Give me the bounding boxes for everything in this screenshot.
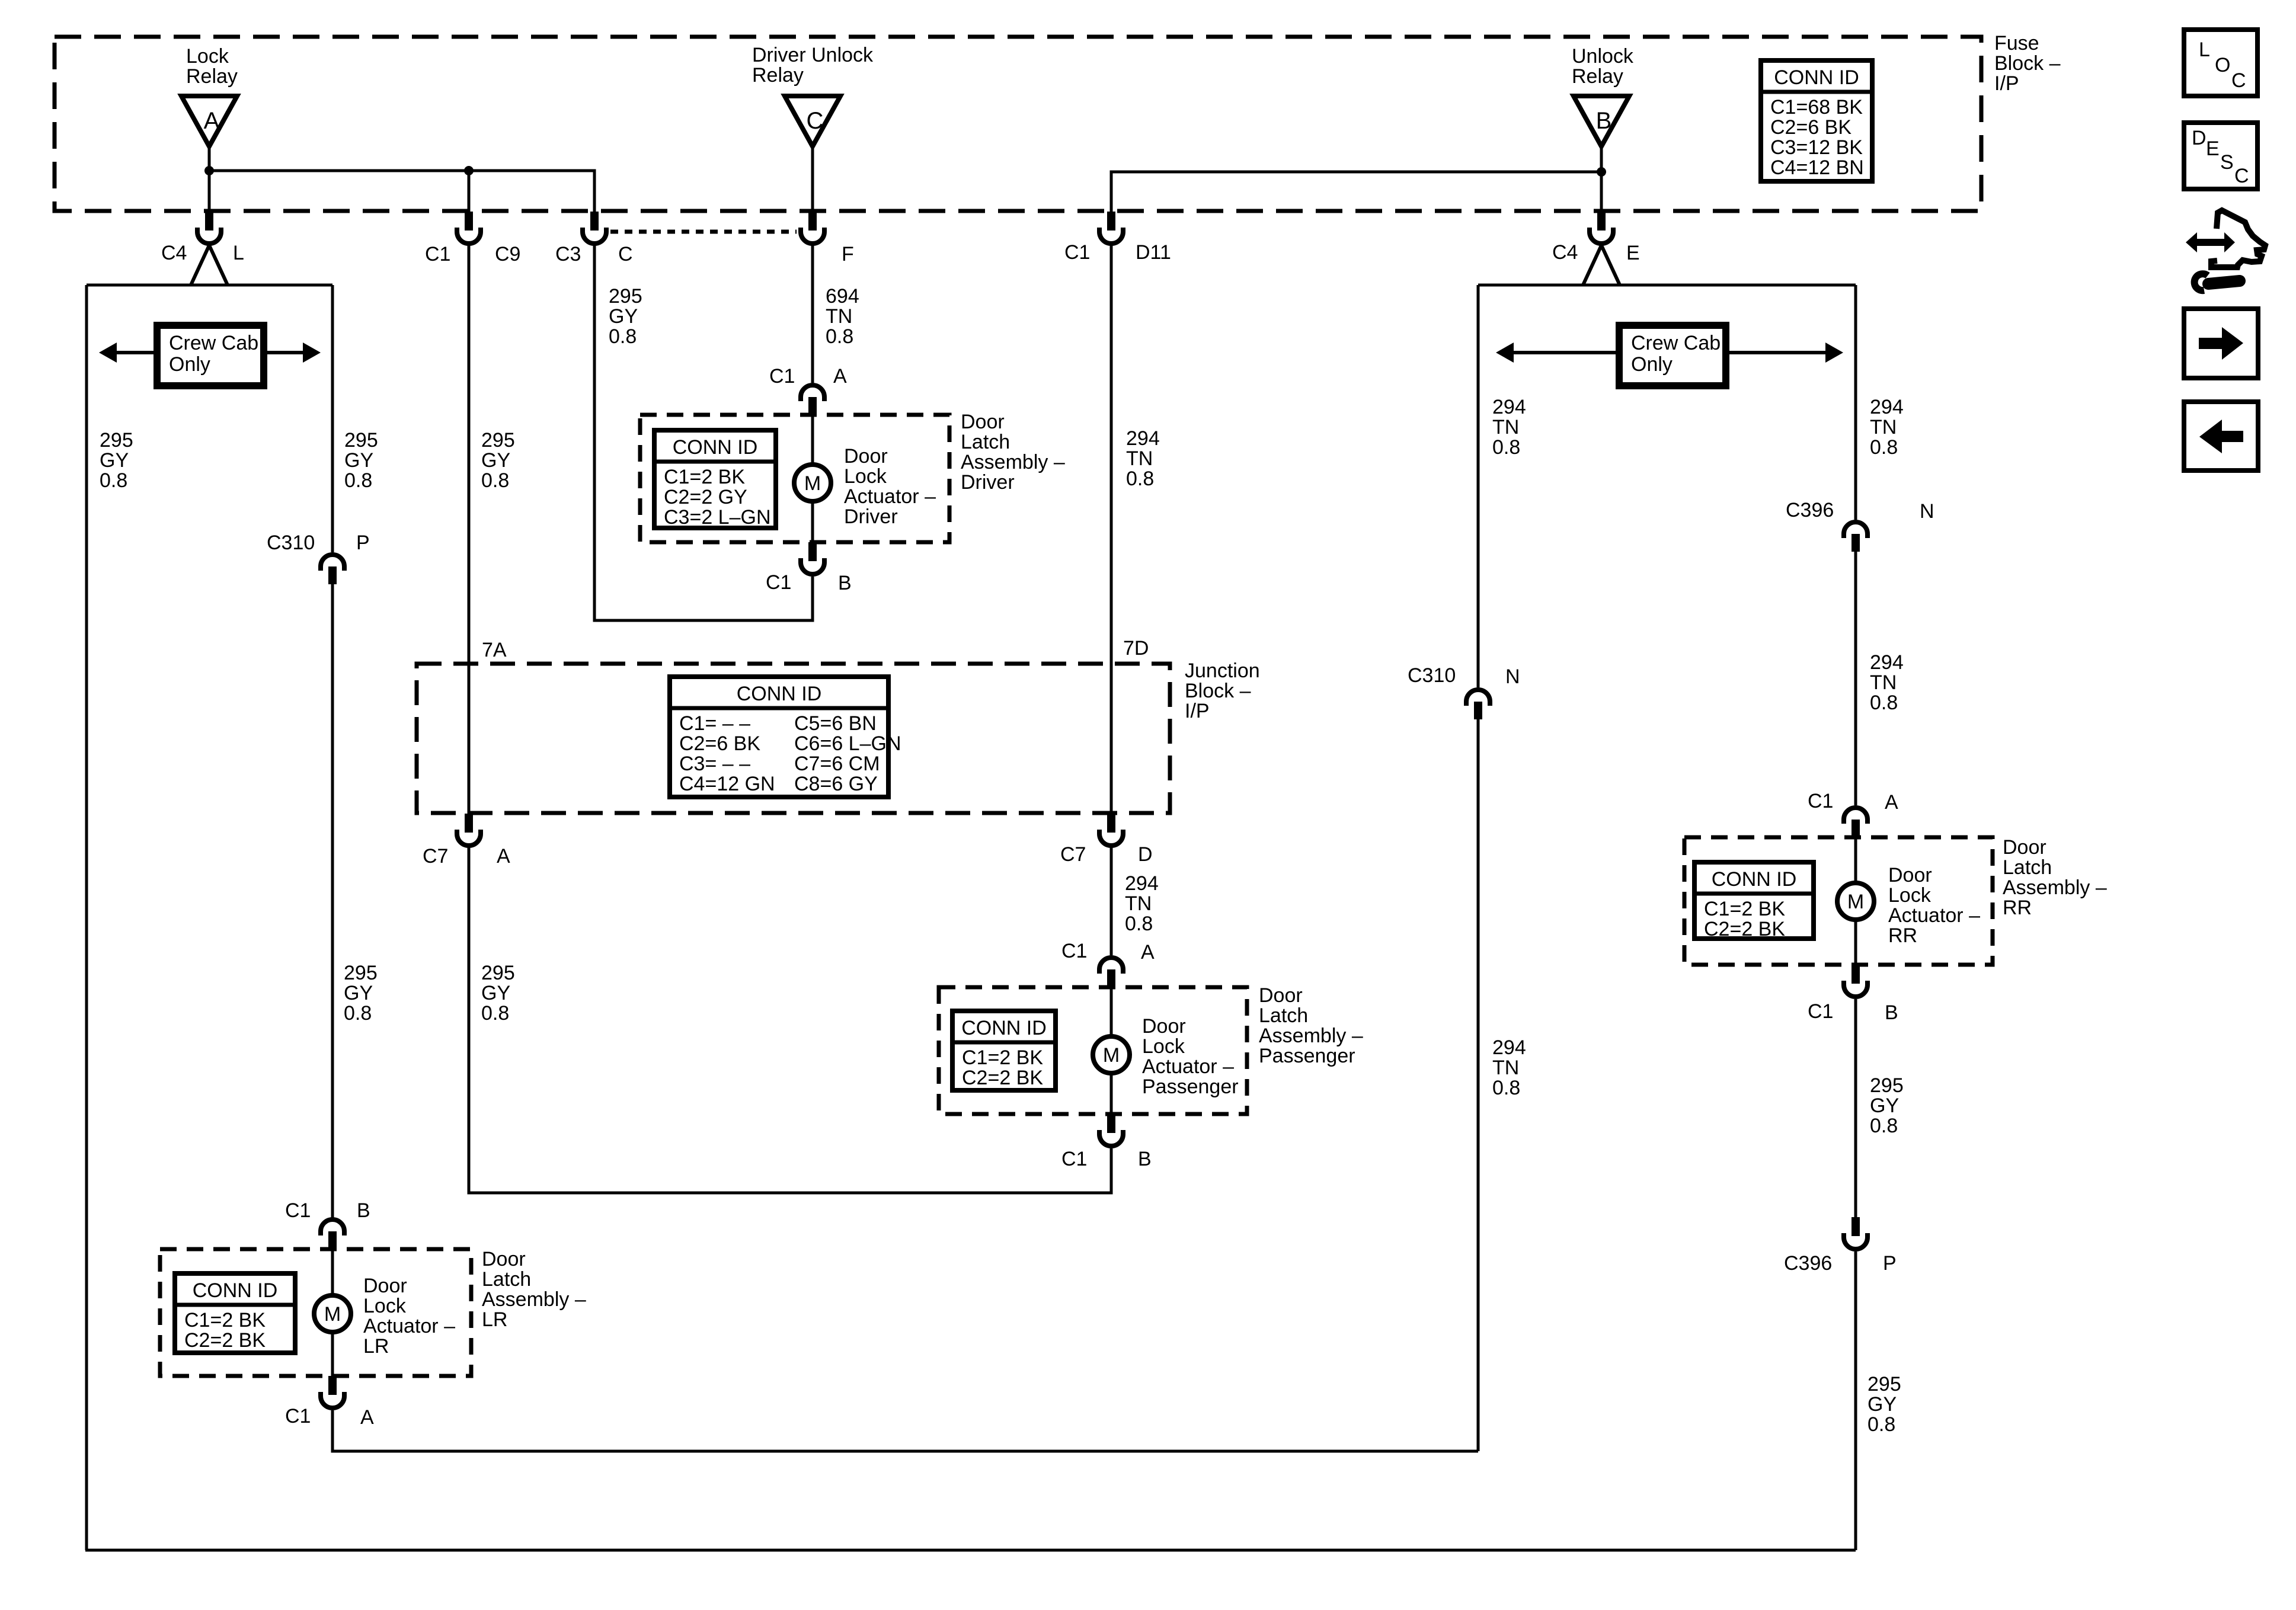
svg-text:A: A [833,365,847,388]
svg-text:P: P [1883,1252,1897,1275]
svg-text:0.8: 0.8 [1126,468,1154,490]
svg-text:Block –: Block – [1994,52,2061,75]
svg-text:Relay: Relay [1572,65,1623,88]
svg-text:7D: 7D [1123,637,1149,660]
wire label 295 GY 0.8 (lower C310 column) [344,962,378,1025]
svg-text:0.8: 0.8 [826,325,853,348]
svg-text:0.8: 0.8 [100,469,127,492]
wire: F down to driver actuator A [811,245,814,383]
connector C1 pin A (passenger) [1099,958,1123,988]
svg-text:Door: Door [1142,1015,1186,1038]
svg-text:C7: C7 [1060,843,1086,866]
label C396 / N [1786,499,1934,523]
junction dot at unlock relay [1597,167,1606,177]
svg-text:M: M [1103,1044,1120,1067]
svg-text:295: 295 [1870,1074,1904,1097]
svg-text:TN: TN [1870,671,1897,694]
svg-text:C1: C1 [1061,940,1087,962]
svg-text:Unlock: Unlock [1572,45,1634,68]
svg-text:B: B [1885,1001,1898,1024]
svg-text:GY: GY [609,305,638,328]
connector C1 pin A (RR) [1844,808,1868,838]
svg-text:295: 295 [100,429,133,452]
svg-text:0.8: 0.8 [1870,1115,1898,1137]
wire: driver unlock relay C down to pin F [811,145,814,212]
svg-text:C1=2 BK: C1=2 BK [962,1046,1043,1069]
svg-text:C1: C1 [1061,1148,1087,1170]
svg-text:294: 294 [1126,427,1160,450]
wire label 295 GY 0.8 (C column) [609,285,642,348]
svg-text:M: M [804,472,821,495]
label C310 / P [267,532,370,554]
junction dot above C1/C9 [464,166,474,175]
door lock actuator motor (LR) [314,1295,351,1332]
svg-text:N: N [1920,500,1934,523]
LR latch CONN ID table [175,1273,295,1353]
svg-text:295: 295 [609,285,642,308]
svg-text:M: M [324,1303,341,1326]
svg-text:C7: C7 [423,845,448,868]
svg-text:GY: GY [481,449,510,472]
svg-text:C1: C1 [285,1405,311,1427]
svg-text:C3=2 L–GN: C3=2 L–GN [664,506,771,529]
wire: crew-cab unlock loop top [1478,284,1856,287]
svg-text:Driver: Driver [844,505,898,528]
label: Door Latch Assembly - Passenger [1259,984,1363,1067]
fuse block I/P dashed enclosure [55,37,1981,211]
svg-text:CONN ID: CONN ID [193,1279,278,1302]
wire label 294 TN 0.8 (unlock right) [1870,396,1904,459]
icon: adjust/repair (double arrow, outline, wrench) [2186,210,2265,290]
svg-text:Latch: Latch [961,431,1010,453]
RR latch CONN ID table [1694,862,1814,940]
svg-text:TN: TN [826,305,852,328]
connector C3 pin C [583,212,606,244]
wire: C pin down, corner to driver actuator B [594,245,813,620]
svg-text:0.8: 0.8 [609,325,637,348]
svg-text:294: 294 [1870,396,1904,418]
label C7 / A [423,845,510,868]
svg-text:Actuator –: Actuator – [1142,1055,1234,1078]
crew cab only box (lock side) [99,325,321,386]
svg-text:C3: C3 [555,243,581,265]
svg-text:GY: GY [1870,1094,1899,1117]
label C7 / D [1060,843,1153,866]
svg-text:C1=2 BK: C1=2 BK [664,466,745,488]
svg-text:Driver Unlock: Driver Unlock [752,44,874,66]
svg-text:A: A [204,108,220,134]
wire label 295 GY 0.8 (bottom right) [1868,1373,1901,1436]
svg-text:C2=6 BK: C2=6 BK [679,732,760,755]
wire label 294 TN 0.8 (D11 column) [1126,427,1160,490]
label 7A [482,639,507,661]
svg-text:B: B [1138,1148,1152,1170]
svg-text:Lock: Lock [844,465,887,488]
wire label 294 TN 0.8 (lower D column) [1125,872,1159,935]
svg-text:C: C [2231,69,2246,92]
svg-text:A: A [497,845,510,868]
svg-text:Crew Cab: Crew Cab [169,332,258,354]
svg-text:E: E [2206,137,2220,160]
wire: unlock relay B down to connector C4 pin E [1600,145,1603,212]
svg-text:C1= – –: C1= – – [679,712,750,735]
svg-text:C4: C4 [1552,241,1578,264]
svg-text:Relay: Relay [186,65,238,88]
svg-text:Latch: Latch [1259,1004,1308,1027]
svg-text:Assembly –: Assembly – [1259,1025,1363,1047]
label: Door Latch Assembly - RR [2003,836,2107,919]
svg-text:TN: TN [1492,1057,1519,1079]
svg-text:295: 295 [481,962,515,984]
connector C1 pin A (driver latch) [801,385,824,416]
connector C1 pin C9 [457,212,481,244]
svg-text:RR: RR [1888,924,1917,947]
door latch assembly driver dashed box [640,415,949,542]
svg-text:0.8: 0.8 [1492,436,1520,459]
svg-text:C3=12 BK: C3=12 BK [1770,136,1863,159]
wire label 295 GY 0.8 (C9 column) [481,429,515,492]
connector C1 pin A (LR latch) [321,1376,344,1408]
label C1 / C9 [425,243,520,265]
svg-text:C1: C1 [285,1199,311,1222]
label: Driver Unlock Relay [752,44,874,87]
crew cab only box (unlock side) [1496,325,1843,386]
wire label 295 GY 0.8 (C310 column) [344,429,378,492]
svg-text:A: A [360,1406,374,1429]
svg-text:Lock: Lock [1888,884,1932,907]
icon: forward arrow box [2184,309,2258,378]
wire: lock loop left side down to bottom [85,285,88,1550]
door latch assembly LR dashed box [160,1249,471,1376]
svg-text:Lock: Lock [363,1295,407,1317]
svg-text:Door: Door [363,1275,407,1297]
svg-text:Lock: Lock [186,45,229,68]
svg-text:0.8: 0.8 [1870,436,1898,459]
svg-text:Junction: Junction [1185,660,1260,682]
svg-text:C2=2 BK: C2=2 BK [184,1329,266,1352]
svg-text:294: 294 [1492,396,1526,418]
svg-text:Door: Door [961,411,1005,433]
connector C4 pin E [1590,212,1613,244]
wire: motor to B pin (RR) [1854,921,1857,966]
wire: motor to A pin (LR) [331,1334,334,1377]
svg-text:Latch: Latch [482,1268,531,1291]
wire: bus drop to C1 pin C9 [468,171,471,212]
breakout X below C4/E [1583,245,1620,285]
svg-text:Door: Door [482,1248,526,1270]
label C4 / E [1552,241,1640,264]
svg-text:694: 694 [826,285,859,308]
svg-text:Crew Cab: Crew Cab [1631,332,1721,354]
wire: bottom outer loop [85,1549,1856,1552]
icon: DESC box [2184,123,2257,189]
svg-text:Only: Only [169,353,210,376]
label C1 / A (driver) [769,365,847,388]
connector C1 pin D11 [1099,212,1123,244]
svg-text:0.8: 0.8 [344,1002,372,1025]
svg-text:C9: C9 [495,243,520,265]
connector C1 pin B (driver latch) [801,542,824,574]
svg-text:294: 294 [1870,651,1904,674]
svg-text:C4: C4 [161,242,187,264]
svg-text:0.8: 0.8 [344,469,372,492]
wire: motor to B pin (driver) [811,503,814,543]
svg-text:0.8: 0.8 [481,1002,509,1025]
svg-text:295: 295 [481,429,515,452]
junction block CONN ID table [670,677,901,797]
svg-text:C2=2 GY: C2=2 GY [664,486,747,508]
wire label 294 TN 0.8 (unlock left) [1492,396,1526,459]
label: Door Lock Actuator - Driver [844,445,936,528]
lock relay A [181,96,237,146]
svg-text:C396: C396 [1786,499,1834,521]
label C1 / A (passenger) [1061,940,1155,964]
wire: motor to B pin (passenger) [1110,1075,1113,1115]
svg-text:Relay: Relay [752,64,804,87]
svg-text:B: B [1596,108,1612,134]
wire: C7/D down to passenger A [1110,847,1113,955]
unlock relay B [1574,96,1629,146]
svg-text:Actuator –: Actuator – [844,485,936,508]
passenger latch CONN ID table [952,1011,1056,1090]
svg-text:A: A [1141,941,1155,964]
wire: fuse block bus left (A to C9 to corner above C3/C) [209,171,594,212]
wire: A pin to motor (RR) [1854,837,1857,881]
svg-text:C396: C396 [1784,1252,1832,1275]
svg-text:C1: C1 [769,365,795,388]
door lock actuator motor (driver) [794,465,831,501]
connector C1 pin B (LR latch) [321,1219,344,1250]
wire: C9 column down through junction block [468,245,471,814]
label: Junction Block - I/P [1185,660,1260,722]
svg-text:I/P: I/P [1185,700,1210,722]
label C1 / D11 [1064,241,1171,264]
connector C310 pin P [321,555,344,584]
svg-text:0.8: 0.8 [1868,1413,1895,1436]
svg-text:Passenger: Passenger [1142,1076,1239,1098]
svg-text:GY: GY [100,449,129,472]
svg-text:E: E [1626,242,1640,264]
svg-text:Passenger: Passenger [1259,1045,1355,1067]
junction dot at lock relay [204,166,214,175]
connector F (driver unlock) [801,212,824,244]
label C396 / P [1784,1252,1897,1275]
svg-text:D: D [2192,127,2207,149]
wire: C7/A down and right to passenger B [469,847,1111,1193]
label: Fuse Block - I/P [1994,32,2061,95]
wire label 294 TN 0.8 (below C310/N) [1492,1036,1526,1099]
svg-text:GY: GY [481,982,510,1004]
label C1 / B (passenger) [1061,1148,1152,1170]
svg-text:D: D [1138,843,1153,866]
label: Door Lock Actuator - LR [363,1275,455,1358]
label C1 / B (RR) [1808,1000,1898,1024]
junction block I/P dashed box [417,664,1170,813]
label C1 / B (driver) [766,571,852,594]
svg-text:C310: C310 [267,532,315,554]
svg-text:O: O [2215,54,2230,76]
wire: A pin to motor (driver) [811,415,814,463]
breakout X below C4/L [191,245,228,285]
wire: D11 column down through junction block [1110,245,1113,814]
fuse block CONN ID table [1761,60,1872,181]
svg-text:Only: Only [1631,353,1673,376]
svg-text:Lock: Lock [1142,1035,1185,1058]
svg-text:C: C [618,243,633,265]
label C4 / L [161,242,244,264]
svg-text:Door: Door [2003,836,2046,859]
connector C1 pin B (RR) [1844,965,1868,997]
svg-text:GY: GY [344,449,373,472]
svg-text:A: A [1885,791,1898,814]
svg-text:CONN ID: CONN ID [737,683,822,705]
svg-text:B: B [838,572,852,594]
connector C310 pin N [1466,690,1490,719]
svg-text:L: L [2199,39,2210,61]
svg-text:C1=2 BK: C1=2 BK [184,1309,266,1331]
svg-text:295: 295 [344,429,378,452]
svg-text:C1=2 BK: C1=2 BK [1704,898,1785,920]
svg-text:C7=6 CM: C7=6 CM [794,753,880,775]
svg-text:7A: 7A [482,639,507,661]
label C1 / A (LR) [285,1405,374,1429]
label: Lock Relay [186,45,238,88]
svg-text:0.8: 0.8 [1492,1077,1520,1099]
wire label 294 TN 0.8 (below C396/N) [1870,651,1904,714]
connector C4 pin L [197,212,221,244]
svg-text:Door: Door [1259,984,1303,1007]
svg-text:C1: C1 [766,571,791,594]
svg-text:295: 295 [1868,1373,1901,1395]
svg-text:C1: C1 [1808,1000,1833,1023]
svg-text:Actuator –: Actuator – [1888,904,1980,927]
svg-text:C2=6 BK: C2=6 BK [1770,116,1851,139]
label 7D [1123,637,1149,660]
connector C396 pin N [1844,522,1868,552]
svg-text:Block –: Block – [1185,680,1251,702]
driver unlock relay C [785,96,840,146]
label: Door Latch Assembly - Driver [961,411,1065,494]
icon: LOC box [2184,30,2257,96]
wire: unlock loop left side down to C310/N [1477,285,1480,687]
driver latch CONN ID table [654,430,776,529]
wire: C396/N down to RR latch A [1854,552,1857,805]
svg-text:TN: TN [1125,892,1152,915]
svg-text:C3= – –: C3= – – [679,753,750,775]
wire: C396/P down to bottom loop [1854,1251,1857,1550]
svg-text:0.8: 0.8 [1870,692,1898,714]
svg-text:C2=2 BK: C2=2 BK [962,1067,1043,1089]
svg-text:M: M [1847,891,1864,913]
svg-text:C4=12 BN: C4=12 BN [1770,156,1864,179]
door lock actuator motor (RR) [1837,883,1874,920]
svg-text:CONN ID: CONN ID [1774,66,1859,89]
svg-text:C: C [2234,165,2249,187]
wire: lock relay A down to connector C4 pin L [208,145,211,212]
svg-text:C1: C1 [1808,790,1833,812]
wire label 694 TN 0.8 (F column) [826,285,859,348]
svg-text:TN: TN [1126,447,1153,470]
svg-text:295: 295 [344,962,378,984]
connector C7 pin D [1099,814,1123,846]
svg-text:C1: C1 [1064,241,1090,264]
svg-text:Driver: Driver [961,471,1015,494]
svg-text:294: 294 [1492,1036,1526,1059]
svg-text:C1: C1 [425,243,450,265]
svg-text:Latch: Latch [2003,856,2052,879]
svg-text:CONN ID: CONN ID [673,436,758,459]
wire: B pin to motor (LR) [331,1249,334,1294]
icon: back arrow box [2184,402,2258,470]
svg-text:Fuse: Fuse [1994,32,2039,55]
svg-text:LR: LR [482,1308,507,1331]
svg-text:C6=6 L–GN: C6=6 L–GN [794,732,901,755]
label: Unlock Relay [1572,45,1634,88]
svg-text:TN: TN [1492,416,1519,438]
connector C7 pin A [457,814,481,846]
svg-text:C5=6 BN: C5=6 BN [794,712,877,735]
svg-text:LR: LR [363,1335,389,1358]
svg-text:C2=2 BK: C2=2 BK [1704,918,1785,940]
wire: A pin to motor (passenger) [1110,987,1113,1035]
label C310 / N [1408,664,1520,688]
svg-text:Assembly –: Assembly – [2003,876,2107,899]
door latch assembly RR dashed box [1684,837,1993,965]
svg-text:GY: GY [1868,1393,1897,1416]
connector C1 pin B (passenger) [1099,1114,1123,1146]
wire label 295 GY 0.8 (outer left) [100,429,133,492]
svg-text:Actuator –: Actuator – [363,1315,455,1337]
svg-text:CONN ID: CONN ID [1712,868,1797,891]
door lock actuator motor (passenger) [1093,1036,1130,1073]
svg-text:F: F [842,243,854,265]
svg-text:TN: TN [1870,416,1897,438]
label: Door Lock Actuator - Passenger [1142,1015,1239,1098]
svg-text:GY: GY [344,982,373,1004]
svg-text:Door: Door [844,445,888,468]
svg-text:B: B [357,1199,370,1222]
wire: unlock loop right side down to C396/N [1854,285,1857,520]
svg-text:0.8: 0.8 [481,469,509,492]
wire: RR B down to C396/P [1854,999,1857,1218]
wire label 295 GY 0.8 (lower C9 column) [481,962,515,1025]
label F [842,243,854,265]
label C1 / B (LR) [285,1199,370,1222]
svg-text:C8=6 GY: C8=6 GY [794,773,878,795]
door latch assembly passenger dashed box [939,987,1247,1114]
svg-text:Door: Door [1888,864,1932,886]
svg-text:C1=68 BK: C1=68 BK [1770,96,1863,119]
svg-text:CONN ID: CONN ID [961,1017,1047,1039]
wire: C310/P down to LR latch B [331,584,334,1218]
connector C396 pin P [1844,1217,1868,1249]
svg-text:RR: RR [2003,897,2032,919]
wire label 295 GY 0.8 (below RR B) [1870,1074,1904,1137]
svg-text:S: S [2220,151,2234,174]
svg-text:0.8: 0.8 [1125,913,1153,935]
svg-text:L: L [233,242,244,264]
svg-text:C: C [807,108,824,134]
label: Door Latch Assembly - LR [482,1248,586,1331]
wire: LR A right to unlock return riser [332,1410,1478,1451]
label C3 / C [555,243,633,265]
wire: fuse block bus right (corner above D11 to B) [1111,172,1601,212]
wire: lock loop right side (C310 P column) [331,285,334,552]
label: Door Lock Actuator - RR [1888,864,1980,947]
svg-text:I/P: I/P [1994,72,2019,95]
label C1 / A (RR) [1808,790,1898,814]
svg-text:294: 294 [1125,872,1159,895]
